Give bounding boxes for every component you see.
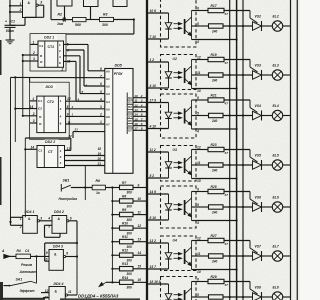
wire R22 to anode rail [223, 115, 253, 117]
wire R19 to thyristor gate [224, 59, 250, 61]
gate DD1.1 (cut at top) [23, 0, 37, 18]
svg-text:11: 11 [197, 252, 201, 256]
svg-text:R11: R11 [122, 235, 128, 239]
node dot ladder row R10 [111, 227, 113, 229]
optocoupler U channel 5 dashed box [161, 146, 197, 182]
wire feedback down-left [133, 20, 135, 35]
svg-text:3: 3 [40, 216, 42, 220]
wire C2 to R2 [65, 19, 72, 21]
wire lamp to rail EL7 [283, 255, 291, 257]
svg-text:D4: D4 [128, 115, 132, 119]
wire DD3 out8 to DD5 A8 [66, 123, 105, 125]
svg-text:14: 14 [30, 105, 34, 109]
phototransistor ch4 [184, 109, 186, 124]
node dot rail1 ch5 [229, 164, 231, 166]
wire bus to LED cathode ch4 [146, 128, 168, 130]
wire feedback DD2.2 top [25, 137, 71, 139]
svg-text:9: 9 [138, 183, 140, 187]
wire R7 to bus [133, 187, 146, 189]
node dot ladder row R8 [111, 200, 113, 202]
lamp common rail right [290, 0, 292, 300]
svg-text:U2: U2 [173, 57, 177, 61]
wire DD5 D2 to bus pin 12 [133, 106, 146, 108]
wire bus to LED anode ch6 [146, 193, 168, 195]
svg-text:16: 16 [138, 278, 142, 282]
svg-text:1: 1 [32, 97, 34, 101]
resistor R23 [208, 147, 224, 151]
node dot rail1 ch7 [229, 255, 231, 257]
node dot under DD1.2 pin [63, 19, 65, 21]
collector emitter wires ch7 [191, 241, 193, 270]
wire R6 to ladder [105, 187, 112, 189]
wire bus to LED anode ch2 [146, 12, 168, 14]
svg-text:4: 4 [140, 103, 143, 107]
vertical wire from DD5 lower pin [84, 166, 86, 201]
svg-text:EL5: EL5 [273, 154, 279, 158]
IC box DD1.4 (cut at top) [113, 0, 127, 7]
wire thyristor to lamp EL8 [262, 296, 273, 298]
wire to resistor R14 [112, 281, 119, 283]
wire DD2.1 out4 to DD5 A3 [64, 55, 81, 57]
svg-text:C4: C4 [25, 249, 29, 253]
collector emitter wires ch2 [191, 11, 193, 40]
wire bus to LED cathode ch3 [146, 87, 168, 89]
optocoupler U channel 6 dashed box [161, 186, 197, 228]
svg-text:47: 47 [224, 12, 229, 16]
svg-text:DD4 4: DD4 4 [54, 282, 64, 286]
svg-text:17: 17 [134, 127, 138, 131]
wire pin to resistor R28 [196, 255, 209, 257]
node dot rail3 ch2 [242, 25, 244, 27]
resistor R29 [208, 279, 224, 283]
node dot ladder row R13 [111, 268, 113, 270]
node dot ladder row R9 [111, 214, 113, 216]
wire from left vertical [50, 0, 52, 20]
inverter output circle DD1.1 [36, 4, 38, 6]
wire to resistor R7 [112, 187, 119, 189]
gate DD4.3 [49, 250, 63, 271]
svg-text:3: 3 [141, 99, 143, 103]
wire pin to resistor R23 [196, 149, 208, 151]
wire R30 to anode rail [223, 296, 253, 298]
svg-text:+: + [5, 20, 7, 24]
wire pin4 to rail2 ch3 [196, 88, 237, 90]
wire R24 to anode rail [223, 164, 253, 166]
svg-text:2: 2 [60, 107, 62, 111]
svg-text:12: 12 [67, 147, 71, 151]
wire R26 to anode rail [223, 206, 253, 208]
svg-text:4: 4 [60, 161, 62, 165]
collector emitter wires ch8 [191, 282, 193, 300]
wire DD4.3 input 10 [45, 260, 49, 262]
light arrows ch6 [174, 204, 180, 206]
svg-text:11 2: 11 2 [150, 148, 156, 152]
wire R2 to R3 [86, 19, 100, 21]
wire pin to resistor R19 [196, 59, 208, 61]
svg-text:9: 9 [141, 127, 143, 131]
wire to resistor R12 [112, 254, 119, 256]
wire DD2.1 out2 to DD5 A2 [66, 49, 84, 51]
wire loop DD4.3 [45, 242, 77, 244]
wire thyristor to lamp EL2 [262, 25, 273, 27]
svg-text:1: 1 [20, 217, 22, 221]
wire bus to LED anode ch7 [146, 242, 168, 244]
collector emitter wires ch3 [191, 60, 193, 89]
node dot pin1 wire [9, 5, 11, 7]
inverter circle DD4.2 [67, 220, 69, 222]
wire bus to LED cathode ch7 [146, 268, 168, 270]
scan edge artifact bottom 1 [2, 298, 45, 300]
wire lamp to rail EL5 [283, 164, 291, 166]
svg-text:R13: R13 [122, 262, 128, 266]
svg-text:5 2: 5 2 [150, 174, 155, 178]
resistor R20 240 [209, 73, 224, 77]
wire R4 to DD4.3 [31, 255, 50, 257]
wire pin4 to rail2 ch4 [196, 128, 237, 130]
node dot rail3 ch4 [242, 114, 244, 116]
wire C1 to ground [9, 27, 11, 40]
svg-text:6: 6 [70, 216, 72, 220]
svg-text:11: 11 [197, 71, 201, 75]
svg-text:20: 20 [97, 157, 102, 161]
svg-text:19: 19 [98, 152, 102, 156]
svg-text:240: 240 [211, 78, 218, 82]
svg-text:5: 5 [197, 22, 199, 26]
svg-text:VS5: VS5 [255, 154, 262, 158]
svg-text:8: 8 [141, 122, 143, 126]
wire R29 to thyristor gate [224, 281, 250, 283]
svg-text:A4: A4 [106, 100, 110, 104]
node dot DD3 pin2 [22, 115, 24, 117]
svg-text:4: 4 [196, 40, 199, 44]
wire thyristor to lamp EL7 [262, 255, 273, 257]
resistor R13 300 [120, 267, 134, 271]
gate DD4.1 [23, 216, 38, 234]
svg-text:1: 1 [59, 43, 61, 47]
wire R8 to bus [133, 200, 146, 202]
node dot ladder row R11 [111, 241, 113, 243]
optocoupler U channel 7 dashed box [161, 236, 197, 271]
wire R25 to thyristor gate [224, 191, 250, 193]
svg-text:VS6: VS6 [255, 196, 262, 200]
wire DD4.1 out to DD4.2 [40, 220, 53, 222]
rail at x243 [242, 0, 244, 300]
svg-text:A0: A0 [106, 69, 110, 73]
node dot rail2 ch4 [236, 128, 238, 130]
pin 3 wire DD3 [30, 122, 37, 124]
wire lamp to rail EL8 [283, 296, 291, 298]
wire R9 to bus [133, 214, 146, 216]
node dot rail1 ch2 [229, 25, 231, 27]
wire pin to resistor R30 [196, 296, 209, 298]
svg-text:8: 8 [66, 251, 68, 255]
svg-text:EL8: EL8 [273, 286, 279, 290]
resistor R30 240 [209, 295, 224, 299]
LED emitter diode ch8 [168, 284, 170, 294]
wire output DD1.1 route [38, 4, 44, 6]
svg-text:4 10: 4 10 [149, 84, 157, 88]
svg-text:13 2: 13 2 [150, 239, 157, 243]
svg-text:1: 1 [60, 99, 62, 103]
pin 14 wire DD2.2 [25, 148, 37, 150]
resistor R19 [208, 57, 224, 61]
svg-text:Эффект: Эффект [20, 289, 35, 293]
rail x10.5 long left [10, 77, 12, 222]
page edge artifact right [296, 0, 298, 300]
svg-text:1: 1 [33, 41, 35, 45]
node dot mode wire [35, 255, 37, 257]
svg-text:DD4 2: DD4 2 [54, 210, 64, 214]
svg-text:47: 47 [224, 102, 229, 106]
wire DD2.2 out to DD5 pin21 [65, 165, 105, 167]
svg-text:R6: R6 [96, 179, 101, 183]
resistor R7 300 [120, 185, 134, 189]
svg-text:VS2: VS2 [255, 15, 262, 19]
rail +U at x229.7 [229, 0, 231, 300]
svg-text:14: 14 [31, 146, 35, 150]
wire DD4.4 out [68, 294, 78, 296]
resistor R10 300 [120, 226, 134, 230]
svg-text:11: 11 [68, 290, 72, 294]
node dot rail2 ch2 [236, 38, 238, 40]
svg-text:11: 11 [67, 121, 71, 125]
resistor R21 [208, 98, 224, 102]
svg-text:2: 2 [32, 51, 35, 55]
wire pin to resistor R25 [196, 191, 208, 193]
svg-text:EL6: EL6 [273, 196, 279, 200]
svg-text:R21: R21 [211, 94, 217, 98]
svg-text:8: 8 [59, 61, 61, 65]
svg-text:СТ2: СТ2 [47, 100, 54, 104]
wire pin to resistor R18 [196, 25, 209, 27]
wire thyristor to lamp EL4 [262, 115, 273, 117]
svg-text:1мк: 1мк [57, 22, 64, 26]
wire pin to resistor R21 [196, 99, 208, 101]
wire R28 to anode rail [223, 255, 253, 257]
svg-text:10: 10 [197, 89, 201, 93]
svg-text:R27: R27 [211, 234, 217, 238]
scan edge artifact left 3 [0, 282, 3, 300]
wire R11 to bus [133, 241, 146, 243]
node dot rail3 ch7 [242, 255, 244, 257]
svg-text:C1: C1 [39, 44, 43, 48]
light arrows ch5 [174, 162, 180, 164]
svg-text:D0: D0 [128, 96, 132, 100]
wire pin to resistor R22 [196, 115, 209, 117]
pin 1 wire DD3 [30, 100, 37, 102]
resistor R24 240 [209, 163, 224, 167]
wire DD2.1 out8 to DD5 A4 [64, 60, 77, 62]
light arrows ch2 [174, 23, 180, 25]
svg-text:A7: A7 [106, 123, 110, 127]
svg-text:SB1: SB1 [63, 179, 70, 183]
svg-text:VS8: VS8 [255, 286, 262, 290]
svg-text:4: 4 [47, 216, 50, 220]
resistor R22 240 [209, 113, 224, 117]
svg-text:8 10: 8 10 [150, 216, 157, 220]
svg-text:Настройка: Настройка [59, 197, 78, 201]
wire bus to LED cathode ch5 [146, 177, 168, 179]
resistor R12 300 [120, 253, 134, 257]
wire R3 right [114, 19, 134, 21]
node dot rail2 ch7 [236, 268, 238, 270]
svg-text:3: 3 [100, 105, 102, 109]
svg-text:Режим: Режим [21, 263, 33, 267]
svg-text:D6: D6 [128, 124, 132, 128]
node dot DD4.1 inputs [9, 221, 11, 223]
resistor R3 300 [100, 17, 114, 21]
wire DD2.2 out to DD5 pin19 [65, 160, 105, 162]
svg-text:4 10: 4 10 [149, 125, 157, 129]
rail x77 down [76, 243, 78, 295]
IC box DD1.2 (cut at top) [57, 0, 72, 6]
counter DD2.1 CT2 box [38, 41, 64, 67]
svg-text:4: 4 [59, 55, 61, 59]
pin 14 wire DD3 [15, 108, 37, 110]
resistor R9 300 [120, 212, 134, 216]
LED emitter diode ch3 [168, 62, 170, 72]
svg-text:R17: R17 [211, 4, 217, 8]
svg-text:12: 12 [138, 224, 142, 228]
wire pin to resistor R29 [196, 281, 208, 283]
svg-text:2: 2 [32, 112, 35, 116]
svg-text:DD2 2: DD2 2 [45, 140, 55, 144]
resistor R25 [208, 189, 224, 193]
svg-text:VS7: VS7 [255, 245, 263, 249]
wire pin4 to rail2 ch5 [196, 178, 237, 180]
wire vertical input left top [9, 0, 11, 25]
wire lamp to rail EL4 [283, 115, 291, 117]
svg-text:5: 5 [197, 112, 199, 116]
svg-text:R12: R12 [122, 249, 128, 253]
resistor R17 [208, 8, 224, 12]
wire R12 to bus [133, 254, 146, 256]
wire pin to resistor R26 [196, 206, 209, 208]
node dot rail2 ch3 [236, 87, 238, 89]
svg-text:EL3: EL3 [273, 64, 279, 68]
svg-text:A3: A3 [106, 92, 110, 96]
wire DD2.2 out to DD5 pin18 [65, 155, 105, 157]
svg-text:23: 23 [74, 128, 79, 132]
optocoupler U channel 8 dashed box [161, 277, 197, 300]
node dot pin14 DD2.2 [24, 148, 26, 150]
wire R27 to thyristor gate [224, 240, 250, 242]
scan edge artifact bottom 2 [60, 298, 140, 300]
wire DD4.4 input 12 [41, 292, 49, 294]
svg-text:3: 3 [33, 119, 35, 123]
svg-text:47: 47 [224, 283, 229, 287]
svg-text:10: 10 [197, 270, 201, 274]
svg-text:13: 13 [138, 238, 142, 242]
wire to gate pin 2 [10, 11, 23, 13]
pin 3 wire DD2.1 [23, 60, 38, 62]
wire DD3 out2 to DD5 A6 [66, 108, 105, 110]
node dot rail1 ch4 [229, 114, 231, 116]
svg-text:A2: A2 [106, 85, 110, 89]
resistor R14 300 [120, 280, 134, 284]
pin 2 wire DD2.1 [23, 54, 38, 56]
svg-text:2: 2 [140, 94, 143, 98]
optocoupler U channel 4 dashed box [161, 94, 197, 138]
svg-text:2: 2 [61, 68, 64, 72]
svg-text:D5: D5 [128, 119, 132, 123]
wire to resistor R9 [112, 214, 119, 216]
phototransistor ch7 [184, 249, 186, 264]
svg-text:2: 2 [59, 49, 61, 53]
node dot ladder row R12 [111, 254, 113, 256]
svg-text:10: 10 [138, 197, 142, 201]
pin wire DD1.3 [90, 7, 92, 20]
node dot rail2 ch6 [236, 219, 238, 221]
gate DD4.4 [49, 287, 65, 300]
svg-text:11: 11 [138, 210, 142, 214]
svg-text:VS4: VS4 [255, 104, 262, 108]
wire DD5 A1 long left [11, 76, 105, 78]
wire bus to LED anode ch5 [146, 151, 168, 153]
svg-text:РПЗУ: РПЗУ [114, 72, 124, 76]
rail x22.8 left [22, 54, 24, 116]
wire R20 to anode rail [223, 74, 253, 76]
svg-text:22: 22 [68, 134, 73, 138]
svg-text:DD4 3: DD4 3 [53, 245, 63, 249]
svg-text:DD1ДD4 – К555ЛА3: DD1ДD4 – К555ЛА3 [78, 293, 119, 298]
svg-text:240: 240 [211, 29, 218, 33]
wire DD5 D5 to bus pin 15 [133, 120, 146, 122]
svg-text:240: 240 [211, 168, 218, 172]
inverter circle DD4.3 [63, 255, 65, 257]
svg-text:R4: R4 [17, 249, 21, 253]
svg-text:D1: D1 [128, 101, 132, 105]
node dot R6 left [84, 186, 86, 188]
wire DD3 out1 to DD5 A5 [66, 100, 105, 102]
wire DD4.3 out [66, 256, 77, 258]
svg-text:D7: D7 [128, 129, 132, 133]
LED emitter diode ch5 [168, 152, 170, 162]
LED emitter diode ch6 [168, 194, 170, 204]
node dot ladder row R7 [111, 186, 113, 188]
phototransistor ch2 [184, 19, 186, 34]
rail from DD2.2 pin14 down [24, 138, 26, 217]
wire DD2.1 out1 to DD5 A0 [64, 43, 89, 45]
svg-text:DD5: DD5 [115, 64, 123, 68]
PROM DD5 box [105, 69, 133, 174]
svg-text:D3: D3 [128, 110, 132, 114]
wire pin to resistor R17 [196, 10, 208, 12]
svg-text:14: 14 [134, 113, 138, 117]
rail x15.3 [14, 77, 16, 142]
wire lamp to rail EL2 [283, 25, 291, 27]
wire pin to resistor R27 [196, 240, 208, 242]
wire thyristor to lamp EL5 [262, 164, 273, 166]
optocoupler U channel 3 dashed box [161, 55, 197, 90]
svg-text:5: 5 [197, 203, 199, 207]
wire thyristor to lamp EL6 [262, 206, 273, 208]
svg-text:R2: R2 [58, 13, 63, 17]
svg-text:D2: D2 [128, 105, 132, 109]
svg-text:1 2: 1 2 [150, 58, 155, 62]
feedback loop wire DD3 [30, 82, 70, 139]
svg-text:300: 300 [127, 204, 133, 208]
svg-text:17 9: 17 9 [150, 99, 157, 103]
ground symbol [6, 39, 15, 41]
svg-text:10 9: 10 9 [150, 9, 157, 13]
svg-text:4: 4 [77, 97, 80, 101]
node dot pin2 [22, 54, 24, 56]
wire to resistor R10 [112, 227, 119, 229]
svg-text:15: 15 [138, 265, 142, 269]
node dot rail3 ch5 [242, 164, 244, 166]
node dot loop DD4.3 [76, 242, 78, 244]
